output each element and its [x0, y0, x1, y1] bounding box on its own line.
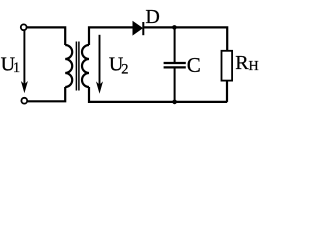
node junction bottom (capacitor tap) — [172, 100, 177, 105]
bottom rail wire — [89, 87, 227, 102]
svg-text:D: D — [145, 6, 159, 28]
resistor RH bottom lead — [226, 81, 228, 102]
wire top-left from terminal to primary — [27, 27, 65, 45]
svg-text:R: R — [235, 52, 249, 74]
transformer secondary winding L2 — [82, 45, 89, 87]
capacitor C top lead — [174, 27, 176, 62]
diode D cathode bar — [142, 22, 144, 35]
wire secondary top to rail — [89, 27, 134, 45]
transformer primary winding L1 — [65, 45, 72, 87]
resistor RH box — [222, 51, 233, 81]
diode D triangle — [133, 22, 142, 35]
svg-text:2: 2 — [121, 62, 128, 78]
terminal (input, top-left) — [21, 24, 27, 30]
capacitor C plates — [164, 62, 186, 64]
U2 voltage arrow shaft — [99, 35, 101, 90]
capacitor C bottom lead — [174, 68, 176, 102]
svg-text:C: C — [187, 53, 201, 77]
wire bottom-left from primary to terminal — [27, 87, 65, 101]
svg-text:1: 1 — [13, 60, 20, 76]
transformer core — [75, 42, 77, 91]
U1 arrowhead — [21, 81, 28, 93]
wire top rail diode to right corner — [143, 27, 227, 51]
U2 arrowhead — [96, 81, 103, 93]
terminal (input, bottom-left) — [21, 98, 27, 104]
U1 voltage arrow shaft — [23, 31, 25, 89]
svg-text:Н: Н — [249, 59, 259, 74]
node junction top (capacitor tap) — [172, 25, 177, 30]
